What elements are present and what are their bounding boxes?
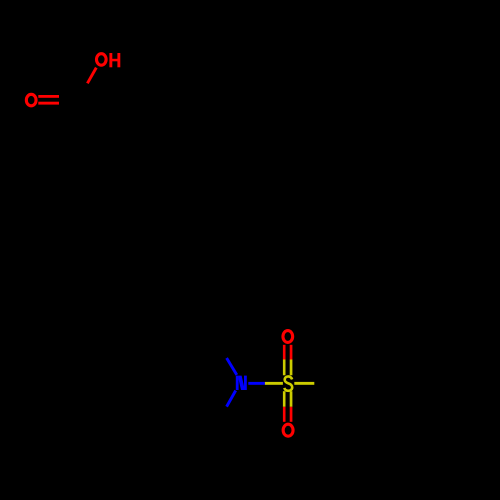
sulfonyl S label (284, 376, 292, 390)
bond N-CH3 upper (blue half, diagonal) (227, 358, 237, 375)
bond S=O upper: left line yellow half (283, 360, 286, 376)
bond S=O upper: right line yellow half (290, 360, 293, 376)
bond C=O double bond upper line (red half) (38, 95, 59, 98)
bond N-S yellow half (265, 382, 283, 385)
carboxylic acid O-H label: letter O (97, 54, 107, 66)
bond N-CH3 lower (blue half, diagonal) (227, 391, 236, 407)
bond C=O double bond lower line (red half) (38, 102, 59, 105)
bond S=O lower: right line yellow half (290, 391, 293, 407)
bond S=O lower: left line yellow half (283, 391, 286, 407)
sulfonyl lower O label (283, 424, 293, 436)
bond S=O lower: right line red half (290, 407, 293, 422)
amine N label (236, 376, 247, 390)
bond S=O upper: left line red half (283, 345, 286, 360)
bond N-S blue half (248, 382, 265, 385)
bond S=O upper: right line red half (290, 345, 293, 360)
bond C-OH (red half, diagonal) (87, 68, 96, 84)
bond S=O lower: left line red half (283, 407, 286, 422)
carbonyl O label (26, 94, 36, 106)
carboxylic acid O-H label: letter H (109, 53, 120, 67)
bond S-C(aryl) right (yellow half) (294, 382, 314, 385)
sulfonyl upper O label (283, 331, 293, 343)
